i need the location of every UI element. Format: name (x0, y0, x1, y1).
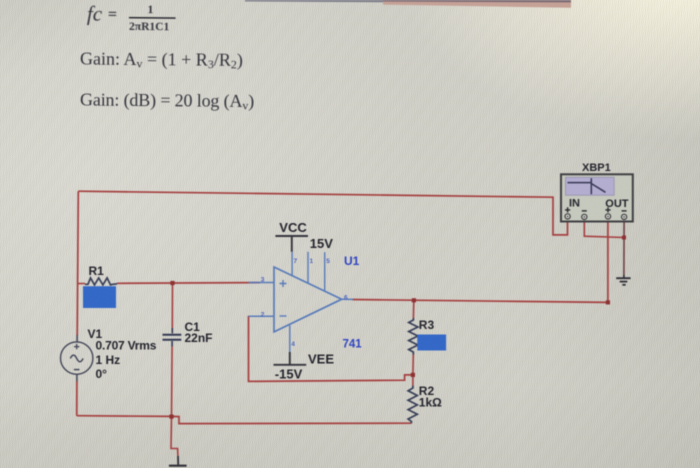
resistor R3 (409, 318, 418, 355)
junction node bottom (169, 415, 173, 419)
svg-text:4: 4 (291, 341, 295, 348)
capacitor C1 (163, 328, 182, 346)
XBP1 screen plot curve (568, 178, 606, 194)
resistor R1 (85, 278, 117, 285)
terminal OUT- (622, 214, 627, 219)
svg-text:6: 6 (344, 295, 348, 302)
svg-text:5: 5 (326, 258, 330, 265)
XBP1 screen (566, 177, 615, 195)
svg-text:3: 3 (261, 277, 265, 284)
OUT+ polarity mark (605, 207, 610, 212)
pin 1 offset null (307, 252, 309, 284)
svg-text:741: 741 (343, 338, 363, 350)
VEE power symbol (274, 352, 307, 365)
svg-text:15V: 15V (310, 236, 333, 251)
op-amp plus sign (280, 280, 287, 287)
resistor R2 (408, 386, 417, 424)
svg-text:VEE: VEE (308, 351, 334, 366)
svg-text:=: = (108, 6, 117, 23)
pin 6 output (342, 298, 353, 300)
svg-text:Gain: Av = (1 + R3/R2): Gain: Av = (1 + R3/R2) (80, 49, 243, 72)
wire feedback from inverting input (249, 316, 413, 382)
wire C1 bottom (171, 346, 174, 417)
svg-text:1kΩ: 1kΩ (419, 396, 442, 410)
R1 highlight rect (83, 286, 116, 308)
wire V1 bottom (76, 381, 78, 416)
wire XBP1 OUT- down to ground (623, 219, 625, 275)
wire R1 left stub (78, 283, 85, 285)
Bode plotter XBP1 box (561, 174, 633, 221)
wire R3 top stub (412, 300, 414, 318)
svg-text:XBP1: XBP1 (582, 162, 611, 174)
ground right of XBP1 (616, 275, 630, 285)
junction node output at OUT+ (606, 300, 610, 304)
svg-text:1: 1 (147, 2, 153, 16)
pin 5 offset null (324, 252, 326, 291)
wire bottom node right with step (172, 416, 412, 423)
pin 2 inverting (249, 315, 275, 317)
svg-text:1 Hz: 1 Hz (96, 353, 121, 367)
svg-text:OUT: OUT (605, 198, 629, 210)
wire R2 top stub (412, 375, 414, 386)
svg-text:R1: R1 (89, 264, 105, 278)
wire R3 bottom stub (412, 355, 414, 375)
svg-text:2: 2 (261, 312, 265, 319)
pin 3 non-inverting (249, 282, 275, 284)
OUT- polarity mark (622, 210, 627, 212)
svg-text:IN: IN (569, 198, 580, 210)
IN- polarity mark (582, 210, 587, 212)
R3 highlight rect (417, 335, 446, 351)
wire ground left jog (171, 417, 178, 456)
svg-text:fc: fc (87, 2, 103, 26)
svg-text:2πR1C1: 2πR1C1 (129, 21, 170, 33)
wire bottom node left (77, 415, 172, 418)
formula Gain Av (80, 49, 243, 72)
VCC power symbol (275, 236, 308, 252)
op-amp U1 triangle (274, 267, 342, 332)
svg-text:7: 7 (294, 258, 298, 265)
IN+ polarity mark (565, 207, 570, 212)
svg-text:VCC: VCC (279, 220, 307, 235)
junction node R3 bottom (411, 373, 415, 377)
svg-text:R3: R3 (419, 318, 435, 332)
wire C1 top (171, 283, 173, 328)
junction node OUT- (622, 236, 626, 240)
junction node C1 top (170, 281, 174, 285)
op-amp minus sign (280, 315, 287, 317)
formula Gain dB (80, 90, 254, 113)
pin 7 VCC (291, 252, 293, 276)
wire R1 to op-amp non-inverting input (117, 282, 260, 285)
svg-text:1: 1 (310, 258, 314, 265)
wire XBP1 OUT+ down to output node (607, 219, 609, 303)
svg-text:Gain: (dB) = 20 log (Av): Gain: (dB) = 20 log (Av) (80, 90, 254, 113)
svg-text:0.707 Vrms: 0.707 Vrms (96, 339, 157, 353)
svg-text:22nF: 22nF (185, 331, 213, 345)
terminal OUT+ (605, 214, 610, 219)
wire XBP1 IN- to OUT- (584, 219, 624, 238)
wire top loop V1 to XBP1 IN+ (78, 191, 567, 235)
pin 4 VEE (289, 325, 291, 352)
junction node R3 top (412, 298, 416, 302)
terminal IN+ (565, 214, 570, 219)
pink band dark upper edge (383, 0, 571, 2)
pink band top (383, 0, 571, 8)
wire left vertical V1 top (77, 191, 78, 335)
source V1 (60, 335, 92, 381)
svg-text:0°: 0° (96, 367, 108, 381)
svg-text:U1: U1 (344, 254, 360, 268)
dark bezel strip top (245, 0, 385, 2)
ground bottom left (169, 456, 187, 468)
svg-text:-15V: -15V (275, 367, 303, 382)
formula fc = 1/(2piR1C1) (87, 2, 176, 34)
terminal IN- (582, 214, 587, 219)
wire op-amp output (353, 300, 608, 303)
